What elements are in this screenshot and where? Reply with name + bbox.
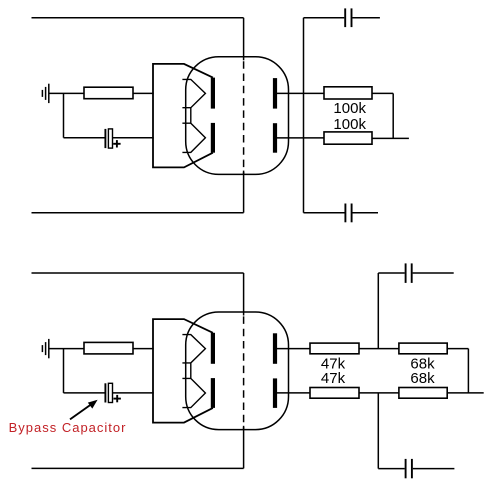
wire anode b to 100k resistor <box>277 137 325 139</box>
valve V1 centre split (dashed) <box>243 57 245 175</box>
wire grid node down to cathode node (bottom circuit) <box>63 349 65 393</box>
wire 68k lower to output (bottom circuit) <box>447 392 484 394</box>
wire grid node down to cathode node <box>63 93 65 137</box>
resistor (grid leak, bottom circuit) <box>84 342 133 354</box>
wire ground to grid resistor (bottom circuit) <box>49 348 85 350</box>
wire valve centre stem to bottom rail (bottom circuit) <box>243 426 245 469</box>
valve V2 grid box <box>153 319 213 423</box>
svg-text:100k: 100k <box>333 100 366 117</box>
wire bus to top coupling capacitor <box>304 17 345 19</box>
valve V2 grid chevron (triode b) <box>182 378 205 407</box>
annotation arrow to bypass capacitor <box>70 400 98 420</box>
svg-text:100k: 100k <box>333 116 366 133</box>
wire bypass capacitor to valve <box>113 137 154 139</box>
svg-text:Bypass Capacitor: Bypass Capacitor <box>9 420 127 435</box>
capacitor (cathode bypass, electrolytic, bottom circuit) <box>105 383 112 402</box>
wire anode a to 100k resistor <box>277 92 325 94</box>
valve V1 grid chevron (triode a) <box>182 79 205 107</box>
wire anode b to 47k resistor <box>277 392 311 394</box>
polarity label + (top circuit) <box>113 140 120 147</box>
wire top rail (bottom circuit) <box>32 272 244 274</box>
resistor 47k (lower) <box>310 388 359 399</box>
valve V1 cathode bar (triode b) <box>211 123 215 153</box>
capacitor (cathode bypass, electrolytic, top circuit) <box>105 129 112 148</box>
wire top coupling capacitor output stub (bottom circuit) <box>413 272 454 274</box>
valve V1 cathode bar (triode a) <box>211 78 215 109</box>
valve V2 envelope <box>186 312 289 430</box>
capacitor (top coupling, top circuit) <box>345 8 351 27</box>
wire bottom rail (top circuit) <box>32 212 244 214</box>
wire 47k upper to 68k upper <box>359 348 399 350</box>
resistor 100k (anode a load) <box>324 87 372 99</box>
capacitor (top coupling, bottom circuit) <box>406 263 412 283</box>
wire top coupling capacitor output stub <box>352 17 380 19</box>
wire 100k upper to right junction <box>372 92 393 94</box>
valve V1 grid chevron (triode b) <box>182 123 205 152</box>
wire grid resistor to valve grid box <box>133 92 154 94</box>
wire bus to bottom coupling capacitor (bottom circuit) <box>378 468 404 470</box>
capacitor (bottom coupling, bottom circuit) <box>406 459 412 478</box>
resistor (grid leak, top circuit) <box>84 87 133 99</box>
valve V2 cathode bar (triode b) <box>211 378 215 408</box>
valve V1 anode bar (triode a) <box>273 78 277 109</box>
ground (top circuit) <box>42 84 48 103</box>
valve V2 anode bar (triode a) <box>273 333 277 364</box>
resistor 100k (anode b load) <box>324 132 372 144</box>
wire bus to bottom coupling capacitor <box>304 212 345 214</box>
svg-text:47k: 47k <box>321 370 346 387</box>
wire 68k upper to right junction (bottom circuit) <box>447 348 468 350</box>
wire bus to top coupling capacitor (bottom circuit) <box>378 272 404 274</box>
ground (bottom circuit) <box>42 339 48 358</box>
wire bottom rail (bottom circuit) <box>32 467 244 469</box>
polarity label + (bottom circuit) <box>114 395 121 402</box>
wire top rail (top circuit) <box>32 17 244 19</box>
wire coupling bus vertical (top circuit) <box>303 18 305 213</box>
wire right junction vertical (bottom circuit) <box>467 349 469 393</box>
valve V2 grid link vertical <box>190 363 192 379</box>
wire cathode node to bypass capacitor (bottom circuit) <box>64 392 105 394</box>
wire valve centre stem to bottom rail <box>243 171 245 213</box>
wire 47k lower to 68k lower <box>359 392 399 394</box>
valve V2 anode bar (triode b) <box>273 378 277 408</box>
valve V2 centre split (dashed) <box>243 312 245 430</box>
wire bottom coupling capacitor output stub (bottom circuit) <box>413 468 455 470</box>
resistor 68k (lower) <box>399 388 447 399</box>
valve V1 grid box <box>153 64 213 167</box>
valve V1 anode bar (triode b) <box>273 123 277 153</box>
wire top rail to valve centre stem <box>243 18 245 61</box>
wire coupling bus vertical lower (bottom circuit) <box>377 393 379 469</box>
wire 100k lower to output <box>372 137 409 139</box>
wire ground to grid resistor <box>49 92 85 94</box>
wire coupling bus vertical upper (bottom circuit) <box>377 273 379 349</box>
capacitor (bottom coupling, top circuit) <box>345 204 351 223</box>
wire grid resistor to valve grid box (bottom circuit) <box>133 348 154 350</box>
valve V2 cathode bar (triode a) <box>211 333 215 364</box>
wire cathode node to bypass capacitor <box>64 137 105 139</box>
svg-text:68k: 68k <box>410 370 435 387</box>
wire anode a to 47k resistor <box>277 348 311 350</box>
resistor 68k (upper) <box>399 343 447 354</box>
wire top rail to valve centre stem (bottom circuit) <box>243 273 245 316</box>
valve V2 grid chevron (triode a) <box>182 335 205 363</box>
valve V1 envelope <box>186 57 289 175</box>
wire right junction vertical <box>392 93 394 138</box>
valve V1 grid link vertical <box>190 108 192 124</box>
wire bypass capacitor to valve (bottom circuit) <box>113 392 154 394</box>
resistor 47k (upper) <box>310 343 359 354</box>
wire bottom coupling capacitor output stub <box>353 212 379 214</box>
